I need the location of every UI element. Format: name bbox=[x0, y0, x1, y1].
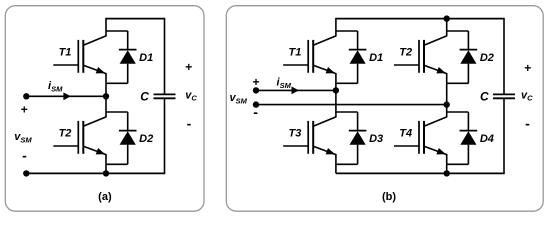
svg-text:D2: D2 bbox=[480, 52, 494, 64]
wire: + input wire i_SM (b) bbox=[256, 89, 336, 91]
node: - terminal (b) bbox=[253, 101, 259, 107]
svg-text:T1: T1 bbox=[59, 46, 72, 58]
wire: top rail (b) bbox=[336, 18, 504, 20]
svg-text:D1: D1 bbox=[369, 52, 383, 64]
wire: T3 emitter vertical (b) bbox=[335, 154, 337, 173]
wire: capacitor branch upper (a) bbox=[164, 18, 166, 95]
svg-text:C: C bbox=[140, 90, 149, 104]
svg-text:C: C bbox=[480, 90, 489, 104]
wire: bottom rail (b) bbox=[336, 172, 504, 174]
wire: T2 collector vertical bbox=[105, 96, 107, 117]
transistor T4 bbox=[394, 117, 447, 155]
transistor T2 bbox=[53, 117, 106, 155]
wire: T1 emitter vertical to mid node bbox=[105, 73, 107, 96]
svg-text:D1: D1 bbox=[139, 52, 153, 64]
transistor T1 bbox=[53, 36, 106, 74]
wire: bottom rail (a) bbox=[26, 172, 164, 174]
svg-text:+: + bbox=[252, 75, 259, 89]
arrow i_SM (b) bbox=[292, 87, 299, 95]
node: - terminal (a) bbox=[23, 170, 29, 176]
wire: T1 collector vertical (b) bbox=[335, 18, 337, 37]
node: + terminal (a) bbox=[23, 93, 29, 99]
wire: capacitor branch lower (b) bbox=[503, 98, 505, 174]
node: top rail junction at right leg bbox=[444, 15, 450, 21]
wire: right leg vertical (b) bbox=[446, 73, 448, 117]
svg-text:T4: T4 bbox=[399, 127, 412, 139]
wire: left leg vertical (b) bbox=[335, 73, 337, 117]
node: bottom rail junction at right leg (b) bbox=[444, 170, 450, 176]
svg-text:D2: D2 bbox=[139, 133, 153, 145]
wire: T4 emitter vertical (b) bbox=[446, 154, 448, 173]
wire: T2 emitter vertical bbox=[105, 154, 107, 173]
svg-text:+: + bbox=[21, 103, 28, 117]
wire: capacitor branch upper (b) bbox=[503, 18, 505, 95]
wire: T1 collector vertical bbox=[105, 18, 107, 37]
diode D2 bbox=[447, 31, 478, 83]
svg-text:D4: D4 bbox=[480, 133, 494, 145]
transistor T1 bbox=[283, 36, 336, 74]
diode D4 bbox=[447, 112, 478, 164]
diode D1 bbox=[106, 31, 137, 83]
svg-text:iSM: iSM bbox=[48, 80, 63, 94]
capacitor C (b) bbox=[493, 93, 515, 95]
diode D1 bbox=[336, 31, 367, 83]
svg-text:vC: vC bbox=[185, 90, 197, 103]
svg-text:vC: vC bbox=[521, 90, 533, 103]
transistor T2 bbox=[394, 36, 447, 74]
wire: capacitor branch lower (a) bbox=[164, 98, 166, 174]
svg-text:(a): (a) bbox=[98, 191, 112, 203]
svg-text:(b): (b) bbox=[382, 191, 396, 203]
diode D2 bbox=[106, 112, 137, 164]
svg-text:+: + bbox=[185, 60, 192, 74]
svg-text:T2: T2 bbox=[59, 127, 72, 139]
svg-text:D3: D3 bbox=[369, 133, 383, 145]
panel (a) border bbox=[5, 6, 204, 212]
node: + terminal (b) bbox=[253, 87, 259, 93]
svg-text:-: - bbox=[525, 116, 530, 132]
svg-text:-: - bbox=[22, 147, 27, 163]
capacitor C (a) bbox=[154, 93, 176, 95]
svg-text:vSM: vSM bbox=[230, 92, 248, 106]
svg-text:-: - bbox=[253, 104, 258, 120]
svg-text:+: + bbox=[524, 61, 531, 75]
wire: - input wire (b) bbox=[256, 104, 447, 106]
node: right leg junction (b) bbox=[444, 101, 450, 107]
wire: T2 collector vertical (b) bbox=[446, 18, 448, 37]
svg-text:vSM: vSM bbox=[14, 131, 32, 145]
svg-text:iSM: iSM bbox=[277, 77, 292, 91]
wire: top rail (a) bbox=[106, 18, 165, 20]
arrow i_SM (a) bbox=[63, 92, 70, 100]
svg-text:T3: T3 bbox=[288, 127, 301, 139]
wire: mid input wire i_SM bbox=[26, 95, 106, 97]
diode D3 bbox=[336, 112, 367, 164]
node: mid junction (a) bbox=[103, 93, 109, 99]
node: bottom junction (a) bbox=[103, 170, 109, 176]
svg-text:T2: T2 bbox=[399, 46, 412, 58]
svg-text:-: - bbox=[187, 115, 192, 131]
svg-text:T1: T1 bbox=[288, 46, 301, 58]
panel (b) border bbox=[226, 6, 543, 212]
transistor T3 bbox=[283, 117, 336, 155]
node: left leg junction (b) bbox=[333, 87, 339, 93]
